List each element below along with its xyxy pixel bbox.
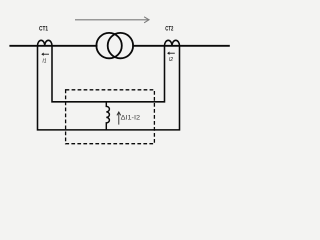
wire: CT1/CT2 secondary outer loop conductor: [38, 46, 180, 130]
arrow: current I1 direction (left): [41, 53, 49, 56]
current transformer CT1 secondary arches: [38, 40, 53, 46]
svg-text:I2: I2: [169, 57, 173, 63]
svg-text:ΔI1-I2: ΔI1-I2: [121, 114, 141, 121]
arrow: power flow direction (gray, pointing right): [75, 17, 149, 23]
svg-text:CT2: CT2: [165, 27, 173, 33]
label I1: [42, 59, 46, 65]
relay coil (differential relay winding): [106, 101, 109, 130]
wire: CT1/CT2 secondary inner loop conductor: [52, 46, 165, 102]
wire: primary bus left segment: [9, 45, 97, 47]
svg-text:CT1: CT1: [39, 27, 49, 33]
svg-text:I1: I1: [42, 59, 46, 65]
relay enclosure (dashed rectangle): [66, 90, 155, 144]
label delta I1-I2 (relay current): [121, 114, 141, 121]
wire: primary bus right segment: [132, 45, 230, 47]
label CT1: [39, 27, 49, 33]
arrow: current I2 direction (left): [167, 52, 175, 55]
label CT2: [165, 27, 173, 33]
current transformer CT2 secondary arches: [165, 40, 180, 46]
arrow: differential current through relay (up): [117, 112, 121, 125]
label I2: [169, 57, 173, 63]
power transformer winding 2 (right circle): [108, 33, 133, 58]
power transformer winding 1 (left circle): [96, 33, 121, 58]
